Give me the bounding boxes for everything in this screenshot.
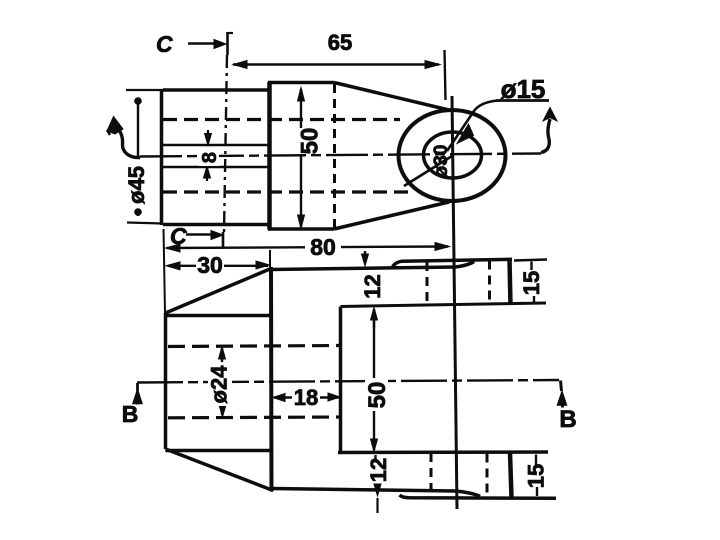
dimension 12 top flange xyxy=(362,251,375,328)
wire left extension line of bottom view xyxy=(164,229,166,313)
wire hidden bore line bottom-view upper xyxy=(168,346,341,347)
dimension 65 top xyxy=(233,50,446,100)
svg-text:B: B xyxy=(122,401,139,427)
dimension 8 arrows top-view xyxy=(204,130,212,181)
dimension 50 bottom-view xyxy=(371,308,378,452)
wire section line vertical xyxy=(452,96,457,509)
svg-text:ø24: ø24 xyxy=(207,365,232,404)
wire bottom-view bottom edge xyxy=(272,489,480,497)
svg-text:ø15: ø15 xyxy=(501,74,546,104)
dimension 12 bottom flange xyxy=(374,455,381,513)
svg-text:B: B xyxy=(559,406,576,433)
wire hidden hole line bottom flange right xyxy=(486,454,489,498)
label 50 bottom rotated xyxy=(364,378,391,411)
wire top flange right edge xyxy=(510,260,511,305)
leader line phi15 xyxy=(447,101,549,152)
wire notch bottom line with extension xyxy=(338,450,548,454)
dimension 50 top-view xyxy=(298,88,305,229)
wire extension between views at x=270 xyxy=(269,250,271,267)
svg-text:C: C xyxy=(170,223,187,249)
wire hidden hole line top flange right xyxy=(488,261,491,305)
wire C-C cutting plane centerline xyxy=(224,55,227,232)
wire hidden vertical line mid flange xyxy=(333,84,336,228)
wire bottom-view horizontal centerline xyxy=(137,380,559,383)
svg-text:ø30: ø30 xyxy=(431,145,452,178)
dimension phi45 left xyxy=(126,90,163,224)
svg-text:15: 15 xyxy=(519,271,544,295)
dimension 15 bottom flange xyxy=(536,455,537,497)
wire hidden bore line upper xyxy=(163,118,400,121)
label phi45 rotated xyxy=(124,98,149,216)
label C bottom with arrow xyxy=(186,231,223,249)
node boss outer circle xyxy=(399,110,506,201)
wire notch left edge xyxy=(339,307,343,453)
label B right with arrow xyxy=(558,381,567,408)
svg-text:30: 30 xyxy=(197,252,223,278)
wire bottom-view mid vertical edge xyxy=(269,267,274,492)
dimension 80 xyxy=(166,243,450,253)
text labels painted over lines xyxy=(122,30,577,488)
wire bottom slot lower line with extension xyxy=(400,495,557,498)
wire hidden hole line top flange left xyxy=(426,262,429,305)
wire top slot upper line xyxy=(393,259,513,266)
svg-text:50: 50 xyxy=(364,382,391,409)
wire hidden bore line bottom-view lower xyxy=(168,415,341,419)
svg-text:ø45: ø45 xyxy=(124,166,149,204)
wire top-view horizontal centerline xyxy=(140,154,541,157)
label C top with arrow xyxy=(188,32,233,55)
label 80 xyxy=(305,234,341,260)
svg-text:65: 65 xyxy=(328,30,352,55)
wire top flange bottom line with extension xyxy=(341,303,547,307)
wire bottom-view top edge xyxy=(271,262,474,270)
node boss inner circle xyxy=(424,132,482,178)
dimension 30 xyxy=(166,261,270,270)
label phi24 rotated xyxy=(207,362,233,406)
svg-text:12: 12 xyxy=(366,458,391,482)
wire top-view mid flange outline xyxy=(268,82,334,230)
wire bottom flange right edge xyxy=(510,453,512,497)
svg-text:12: 12 xyxy=(360,274,385,298)
dimension 18 xyxy=(273,393,340,402)
svg-text:80: 80 xyxy=(310,234,336,260)
svg-text:18: 18 xyxy=(294,385,318,410)
label 8 rotated xyxy=(199,149,221,166)
wire hidden bore line lower xyxy=(163,190,408,193)
label B left with arrow xyxy=(133,383,142,405)
dimension 15 top flange xyxy=(514,260,547,304)
arrow A left xyxy=(107,117,140,158)
svg-text:8: 8 xyxy=(199,152,221,163)
wire bottom-view left block outline xyxy=(166,269,274,491)
arrow A right xyxy=(541,108,557,153)
wire small bore line upper xyxy=(163,144,269,147)
label 18 xyxy=(292,385,320,410)
svg-text:15: 15 xyxy=(524,464,549,488)
wire hidden hole line bottom flange left xyxy=(430,453,433,496)
dimension phi24 xyxy=(219,347,227,418)
wire tangent lines to boss xyxy=(334,83,449,230)
wire top-view left cylinder outline xyxy=(162,89,270,225)
svg-text:50: 50 xyxy=(296,128,323,155)
wire small bore line lower xyxy=(163,166,269,169)
svg-text:C: C xyxy=(156,31,173,57)
label 50 top-view rotated xyxy=(291,128,323,155)
label 30 xyxy=(196,252,224,278)
wire diagonal spoke in boss xyxy=(404,156,452,186)
